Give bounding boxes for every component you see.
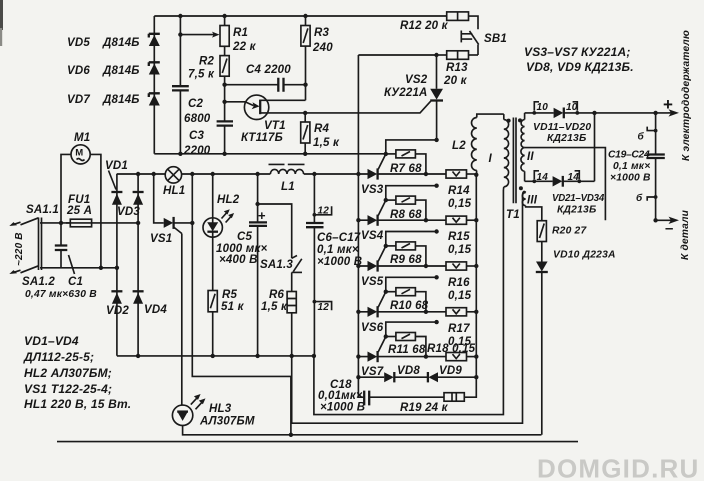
thyristor VS2 xyxy=(384,55,443,140)
capacitor C1 xyxy=(25,223,97,300)
svg-text:C2: C2 xyxy=(188,98,204,110)
wire R2 node down to C3 xyxy=(224,85,226,121)
svg-text:VD7: VD7 xyxy=(67,94,90,106)
node VT1 B1 output xyxy=(303,111,307,115)
node R2 bottom / C4 left xyxy=(222,83,226,87)
bracket 12 upper xyxy=(313,206,332,217)
inductor L1 xyxy=(269,164,305,193)
svg-text:VD21–VD34: VD21–VD34 xyxy=(552,193,605,204)
svg-text:R1: R1 xyxy=(233,27,248,39)
svg-text:SB1: SB1 xyxy=(484,33,507,45)
svg-text:VD6: VD6 xyxy=(67,65,90,77)
node R3 top xyxy=(303,14,307,18)
svg-text:VD3: VD3 xyxy=(117,206,140,218)
node C19 top xyxy=(653,111,657,115)
wire AC line 2 from SA1.2 xyxy=(40,267,117,269)
diode VD21-VD34 xyxy=(552,176,605,216)
node R4 bottom xyxy=(303,152,307,156)
switch SA1.2 xyxy=(9,266,55,288)
transistor VT1 KT117B unijunction xyxy=(225,95,306,144)
svg-text:M: M xyxy=(75,148,83,159)
output - arrow xyxy=(656,217,679,237)
svg-text:VD8, VD9 КД213Б.: VD8, VD9 КД213Б. xyxy=(526,60,634,74)
node VD4 bottom on - rail xyxy=(136,354,140,358)
node bus joins main rail xyxy=(356,172,360,176)
svg-text:VS7: VS7 xyxy=(361,366,384,378)
svg-text:25 А: 25 А xyxy=(66,205,92,217)
svg-text:C5: C5 xyxy=(237,231,253,243)
svg-text:R13: R13 xyxy=(446,62,468,74)
svg-text:L2: L2 xyxy=(452,140,466,152)
resistor R5 51k xyxy=(208,289,244,356)
wire VT1 B1 to VS2 gate xyxy=(305,101,431,113)
node R6 bottom xyxy=(290,354,294,358)
wire + output row xyxy=(525,112,668,114)
wire VS1 cathode riser xyxy=(191,174,193,223)
svg-text:2200: 2200 xyxy=(183,145,211,157)
resistor R18 0.15 xyxy=(427,343,476,361)
svg-text:HL2 АЛ307БМ;: HL2 АЛ307БМ; xyxy=(24,366,112,380)
node L1 right / C6 branch xyxy=(312,172,316,176)
svg-text:КТ117Б: КТ117Б xyxy=(241,132,283,144)
svg-text:C1: C1 xyxy=(68,276,83,288)
zener VD6 xyxy=(67,62,160,77)
svg-text:VD11–VD20: VD11–VD20 xyxy=(533,122,591,133)
svg-text:VS3: VS3 xyxy=(361,184,384,196)
svg-text:0,01мк×: 0,01мк× xyxy=(318,390,363,402)
svg-text:VS6: VS6 xyxy=(361,322,384,334)
wire R14-R18 right bus xyxy=(475,175,477,377)
node C3 bottom xyxy=(222,152,226,156)
parts list text block xyxy=(23,334,131,411)
svg-text:VD9: VD9 xyxy=(439,365,462,377)
LED HL2 xyxy=(203,174,240,291)
capacitor C5 electrolytic xyxy=(216,174,268,356)
wire secondary center tap xyxy=(525,148,606,221)
node VD9 right bus xyxy=(474,375,478,379)
svg-text:R7 68: R7 68 xyxy=(390,163,422,175)
resistor R17 0.15 xyxy=(446,308,476,348)
main + rail left part xyxy=(117,173,165,175)
svg-text:7,5 к: 7,5 к xyxy=(188,69,215,81)
svg-text:R19 24 к: R19 24 к xyxy=(400,402,449,414)
svg-text:R18 0,15: R18 0,15 xyxy=(427,343,476,355)
svg-text:R6: R6 xyxy=(269,289,285,301)
resistor R6 1.5k xyxy=(261,289,296,356)
resistor R19 24k xyxy=(400,377,476,414)
node C2 top xyxy=(178,14,182,18)
svg-text:Д814Б: Д814Б xyxy=(102,94,140,106)
svg-text:C6–C17: C6–C17 xyxy=(317,232,361,244)
svg-text:+: + xyxy=(663,95,673,114)
transformer T1 winding I xyxy=(489,114,520,221)
resistor R3 240 xyxy=(301,16,333,100)
svg-text:R8 68: R8 68 xyxy=(390,209,422,221)
resistor R14 0.15 xyxy=(446,170,476,210)
diode VD3 xyxy=(117,192,144,218)
svg-text:R17: R17 xyxy=(448,323,470,335)
svg-text:6800: 6800 xyxy=(184,113,211,125)
thyristor VS1 xyxy=(150,174,192,245)
svg-text:VD10 Д223А: VD10 Д223А xyxy=(553,250,616,261)
resistor R12 20k xyxy=(400,12,478,32)
svg-text:0,15: 0,15 xyxy=(448,290,472,302)
capacitor C4 2200 xyxy=(225,64,306,92)
wire zener chain column xyxy=(153,16,155,154)
svg-text:Д814Б: Д814Б xyxy=(102,65,140,77)
svg-text:К детали: К детали xyxy=(680,209,691,260)
resistor R16 0.15 xyxy=(446,262,476,302)
svg-text:VS1 Т122-25-4;: VS1 Т122-25-4; xyxy=(24,382,112,396)
svg-text:0,1 мк×: 0,1 мк× xyxy=(317,244,359,256)
thyristor VS6 xyxy=(358,292,446,334)
zener VD5 xyxy=(67,34,160,49)
wire long bottom line xyxy=(57,441,578,443)
svg-text:VS2: VS2 xyxy=(405,74,428,86)
node R7 gate xyxy=(384,152,388,156)
fuse FU1 25A xyxy=(66,194,96,227)
node C5 bottom xyxy=(255,354,259,358)
switch SA1.3 xyxy=(260,256,302,292)
wire main rail HL1 to L1 xyxy=(182,173,358,175)
svg-text:~220 В: ~220 В xyxy=(14,232,25,266)
inductor L2 xyxy=(452,114,504,175)
svg-text:VT1: VT1 xyxy=(264,120,286,132)
node HL2 top xyxy=(211,172,215,176)
svg-text:VS4: VS4 xyxy=(361,230,384,242)
wire VD3/VD4 column xyxy=(137,174,139,356)
pushbutton SB1 xyxy=(461,31,507,56)
svg-text:II: II xyxy=(527,151,534,163)
resistor R8 68 xyxy=(386,186,437,221)
wire middle loop (winding III top to C18 area) xyxy=(292,192,526,424)
svg-text:10: 10 xyxy=(566,102,578,113)
LED HL3 xyxy=(172,394,254,428)
svg-text:0,1 мк×: 0,1 мк× xyxy=(613,161,650,172)
svg-text:б: б xyxy=(636,192,643,204)
resistor R10 68 xyxy=(386,277,437,312)
diode VD1 xyxy=(105,160,128,205)
svg-text:0,47 мк×630 В: 0,47 мк×630 В xyxy=(25,289,97,300)
node C19 bottom xyxy=(653,218,657,222)
wire arrow to R1 wiper xyxy=(180,34,215,36)
svg-text:22 к: 22 к xyxy=(232,41,257,53)
svg-text:R3: R3 xyxy=(314,27,330,39)
svg-text:L1: L1 xyxy=(281,181,295,193)
resistor R4 1.5k xyxy=(301,113,340,154)
bracket 6 lower xyxy=(636,192,657,204)
svg-text:R5: R5 xyxy=(222,289,238,301)
resistor R1 22k xyxy=(220,16,257,53)
svg-text:К электрододержателю: К электрододержателю xyxy=(681,30,692,161)
node VS1 anode branch xyxy=(152,172,156,176)
node VT1 emitter tap xyxy=(222,100,226,104)
node R14 right bus xyxy=(474,173,478,177)
thyristor VS5 xyxy=(358,246,446,288)
svg-text:М1: М1 xyxy=(74,132,90,144)
svg-text:14: 14 xyxy=(537,172,549,183)
svg-text:14: 14 xyxy=(568,172,580,183)
svg-text:R16: R16 xyxy=(448,277,470,289)
wire bus extension to VD8 row xyxy=(357,357,359,378)
svg-text:R15: R15 xyxy=(448,231,470,243)
bracket 14 right xyxy=(568,171,582,183)
svg-text:–: – xyxy=(665,220,674,237)
svg-text:C4 2200: C4 2200 xyxy=(246,64,291,76)
svg-text:VD2: VD2 xyxy=(106,305,129,317)
thyristor VS4 xyxy=(358,200,446,242)
capacitor C18 xyxy=(318,377,444,413)
svg-text:10: 10 xyxy=(537,102,549,113)
svg-text:КУ221А: КУ221А xyxy=(384,87,428,99)
lamp HL1 xyxy=(163,167,185,197)
svg-text:1,5 к: 1,5 к xyxy=(313,137,340,149)
capacitor C3 xyxy=(183,121,233,157)
svg-text:C19–C24: C19–C24 xyxy=(608,150,650,161)
resistor R15 0.15 xyxy=(446,216,476,256)
node routing T-junction xyxy=(289,433,293,437)
svg-text:Т1: Т1 xyxy=(506,209,520,221)
bottom - rail xyxy=(117,355,314,357)
resistor R7 68 xyxy=(386,140,437,175)
resistor R2 7.5k xyxy=(188,46,229,84)
node C6 bottom / inner loop start xyxy=(312,354,316,358)
wire lower diode row xyxy=(525,180,595,182)
node C4 right on R3 wire xyxy=(303,83,307,87)
svg-text:R10 68: R10 68 xyxy=(390,300,429,312)
svg-text:б: б xyxy=(638,131,645,143)
resistor R11 68 xyxy=(386,322,437,357)
node VS2 anode branch xyxy=(434,53,438,57)
wire oscillator bottom rail xyxy=(154,153,385,155)
bracket 14 left xyxy=(532,171,548,183)
svg-text:VD1: VD1 xyxy=(105,160,128,172)
node C5 branch to SA1.3 xyxy=(255,202,259,206)
svg-text:20 к: 20 к xyxy=(443,75,468,87)
svg-text:VS3–VS7 КУ221А;: VS3–VS7 КУ221А; xyxy=(524,45,631,59)
diode VD2 xyxy=(106,291,129,317)
wire anode feed line y=55 xyxy=(358,54,436,56)
wire C5 branch to SA1.3 xyxy=(258,204,292,258)
svg-text:×1000 В: ×1000 В xyxy=(317,256,362,268)
svg-text:51 к: 51 к xyxy=(221,301,245,313)
node C2 bottom xyxy=(178,152,182,156)
node VS1 cathode xyxy=(190,221,194,225)
wire motor left leg xyxy=(61,154,71,223)
svg-text:12: 12 xyxy=(318,206,330,217)
resistor R9 68 xyxy=(386,232,437,267)
svg-text:SA1.2: SA1.2 xyxy=(22,276,55,288)
node VD3 top on + rail xyxy=(136,172,140,176)
scan artifact left edge xyxy=(0,0,3,30)
resistor R13 20k xyxy=(437,51,479,87)
node AC1 at VD3 column xyxy=(136,221,140,225)
thyristor VS3 xyxy=(358,154,446,196)
svg-text:0,15: 0,15 xyxy=(448,198,472,210)
svg-text:VD1–VD4: VD1–VD4 xyxy=(24,334,79,348)
resistor R20 27 xyxy=(537,221,587,262)
switch SA1.1 xyxy=(9,204,59,270)
svg-text:HL1: HL1 xyxy=(163,185,185,197)
svg-text:Д814Б: Д814Б xyxy=(102,37,140,49)
node C5 top xyxy=(255,172,259,176)
wire VD21 row riser xyxy=(594,113,596,181)
wire thyristor anode bus xyxy=(357,55,359,357)
capacitors C19-C24 xyxy=(608,113,665,220)
svg-text:R20 27: R20 27 xyxy=(552,226,587,237)
diode VD8 xyxy=(358,365,420,382)
bracket 12 lower xyxy=(313,300,332,313)
svg-text:R12 20 к: R12 20 к xyxy=(400,20,449,32)
svg-text:HL2: HL2 xyxy=(217,194,240,206)
svg-text:HL3: HL3 xyxy=(209,403,232,415)
thyristor VS7 xyxy=(358,337,446,378)
svg-text:I: I xyxy=(489,153,493,165)
diode VD4 xyxy=(133,291,168,316)
svg-text:R4: R4 xyxy=(314,123,330,135)
wire VS1 cathode net routing xyxy=(192,223,291,435)
motor M1 xyxy=(71,132,90,164)
zener VD7 xyxy=(67,93,160,106)
svg-text:VD4: VD4 xyxy=(144,304,167,316)
svg-text:R11 68: R11 68 xyxy=(388,344,426,356)
svg-text:ДЛ112-25-5;: ДЛ112-25-5; xyxy=(23,350,94,364)
svg-text:КД213Б: КД213Б xyxy=(557,205,596,216)
node R1 top xyxy=(222,14,226,18)
svg-text:×1000 В: ×1000 В xyxy=(610,173,651,184)
svg-text:АЛ307БМ: АЛ307БМ xyxy=(199,416,255,428)
capacitors C6-C17 xyxy=(306,174,362,356)
svg-text:12: 12 xyxy=(318,302,330,313)
node gate bus top xyxy=(434,138,438,142)
svg-text:×1000 В: ×1000 В xyxy=(320,402,365,414)
node M1 right to AC2 xyxy=(99,266,103,270)
svg-text:HL1 220 В, 15 Вт.: HL1 220 В, 15 Вт. xyxy=(24,397,131,411)
svg-text:VS1: VS1 xyxy=(150,233,172,245)
svg-text:КД213Б: КД213Б xyxy=(547,133,586,144)
wire fuse to bridge xyxy=(96,222,138,224)
bracket 10 right xyxy=(566,102,579,115)
svg-text:240: 240 xyxy=(312,42,333,54)
wire HL3 bottom to outer loop xyxy=(183,426,542,435)
svg-text:SA1.1: SA1.1 xyxy=(26,204,59,216)
node AC2 at VD1 column xyxy=(115,266,119,270)
svg-text:VD5: VD5 xyxy=(67,37,90,49)
diode VD11-VD20 xyxy=(533,108,591,145)
transformer T1 winding II xyxy=(518,113,534,181)
capacitor C2 xyxy=(172,16,211,154)
node R7 to cathode xyxy=(424,172,428,176)
svg-text:VS5: VS5 xyxy=(361,276,384,288)
svg-text:DOMGID.RU: DOMGID.RU xyxy=(537,454,699,481)
svg-text:0,15: 0,15 xyxy=(448,244,472,256)
svg-text:+: + xyxy=(258,208,266,223)
svg-text:C3: C3 xyxy=(189,130,205,142)
svg-text:1,5 к: 1,5 к xyxy=(261,301,288,313)
svg-text:R14: R14 xyxy=(448,185,470,197)
output + arrow xyxy=(663,95,679,117)
wire AC line 1 from SA1.1 to fuse xyxy=(40,222,70,224)
svg-text:SA1.3: SA1.3 xyxy=(260,259,293,271)
svg-text:×400 В: ×400 В xyxy=(219,254,258,266)
svg-text:VD8: VD8 xyxy=(397,365,420,377)
wire inner loop (primary return) xyxy=(314,190,504,415)
transformer T1 winding III xyxy=(519,186,542,221)
node + junction VD21 riser xyxy=(592,111,596,115)
wire oscillator top rail xyxy=(154,15,446,17)
transformer core xyxy=(513,118,516,204)
wire motor right leg xyxy=(90,154,101,267)
bracket 6 upper xyxy=(638,127,658,143)
svg-text:R9 68: R9 68 xyxy=(390,254,422,266)
bracket 10 left xyxy=(532,102,548,115)
wire VD1/VD2 column xyxy=(116,174,118,356)
diode VD10 xyxy=(536,250,616,435)
diode VD9 xyxy=(394,365,476,382)
wire VS1 gate line down to HL3 xyxy=(181,234,183,406)
svg-text:III: III xyxy=(527,195,538,207)
node R5 bottom xyxy=(211,354,215,358)
svg-text:R2: R2 xyxy=(199,56,215,68)
node C1/M1 junction xyxy=(59,221,63,225)
